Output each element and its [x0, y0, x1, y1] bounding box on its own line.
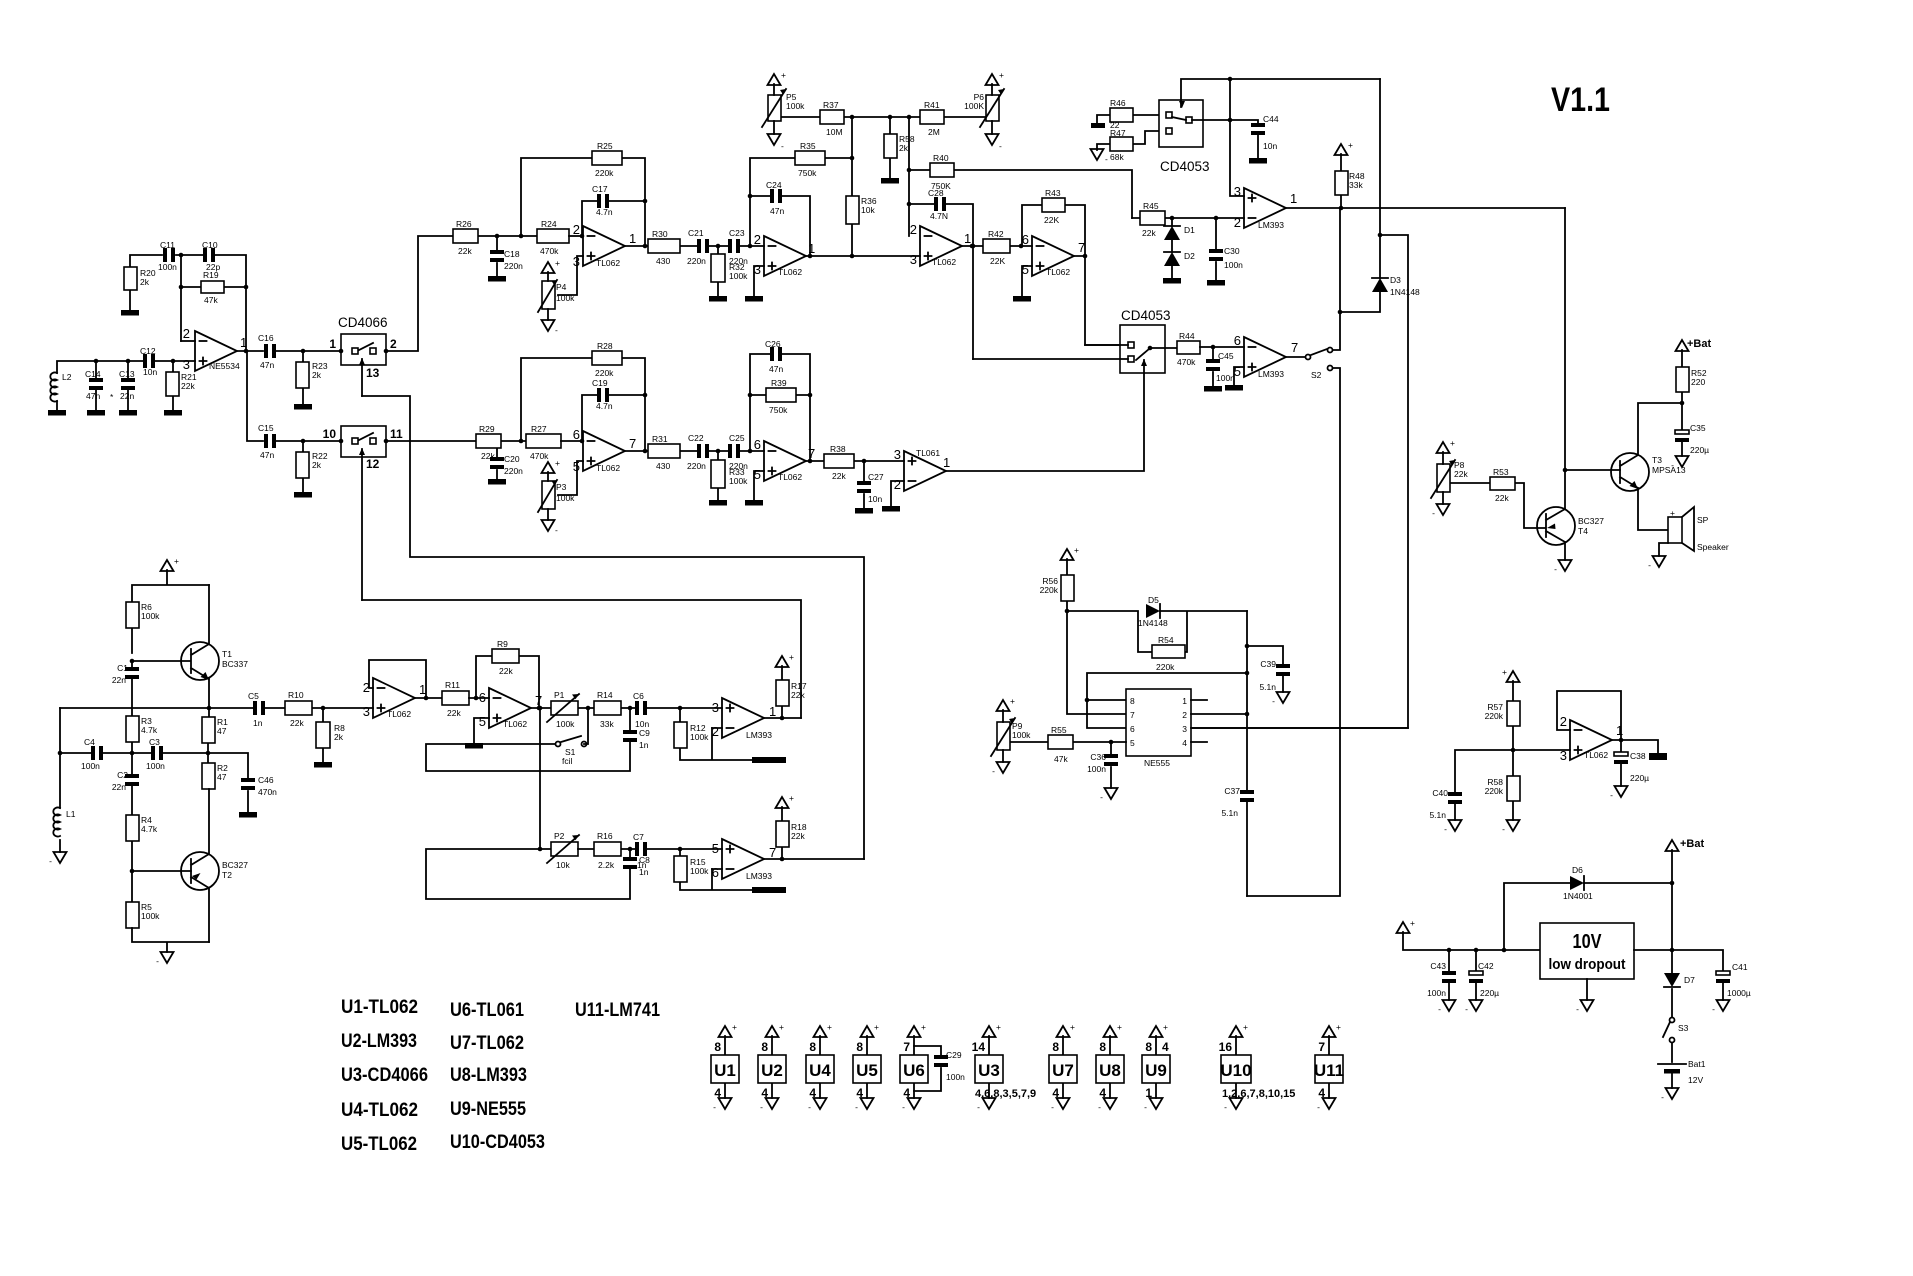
- svg-text:-: -: [977, 1102, 980, 1112]
- svg-text:BC327: BC327: [1578, 516, 1604, 526]
- svg-text:5: 5: [1130, 738, 1135, 748]
- svg-text:220k: 220k: [1485, 786, 1504, 796]
- svg-text:-: -: [1554, 564, 1557, 574]
- svg-text:C23: C23: [729, 228, 745, 238]
- svg-text:750k: 750k: [769, 405, 788, 415]
- svg-text:1N4148: 1N4148: [1138, 618, 1168, 628]
- svg-text:7: 7: [1078, 240, 1085, 255]
- svg-text:C27: C27: [868, 472, 884, 482]
- svg-text:2k: 2k: [312, 460, 322, 470]
- svg-text:C10: C10: [202, 240, 218, 250]
- svg-text:R29: R29: [479, 424, 495, 434]
- svg-text:6: 6: [573, 427, 580, 442]
- svg-text:Speaker: Speaker: [1697, 542, 1729, 552]
- svg-text:+Bat: +Bat: [1687, 338, 1711, 350]
- svg-text:2: 2: [390, 337, 397, 351]
- svg-text:1: 1: [240, 335, 247, 350]
- svg-text:C35: C35: [1690, 423, 1706, 433]
- svg-text:C11: C11: [160, 240, 175, 250]
- svg-text:14: 14: [972, 1040, 986, 1054]
- svg-text:100k: 100k: [1012, 730, 1031, 740]
- svg-text:CD4053: CD4053: [1160, 159, 1210, 174]
- svg-text:8: 8: [856, 1040, 863, 1054]
- svg-text:R37: R37: [823, 100, 839, 110]
- svg-text:R41: R41: [924, 100, 940, 110]
- svg-text:C4: C4: [84, 737, 95, 747]
- svg-text:C5: C5: [248, 691, 259, 701]
- svg-text:100k: 100k: [786, 101, 805, 111]
- svg-text:-: -: [555, 325, 558, 335]
- svg-text:47n: 47n: [260, 450, 274, 460]
- svg-text:220: 220: [1691, 377, 1705, 387]
- svg-text:+: +: [827, 1022, 832, 1032]
- svg-text:CD4066: CD4066: [338, 315, 388, 330]
- svg-text:7: 7: [629, 436, 636, 451]
- svg-text:100k: 100k: [729, 476, 748, 486]
- svg-text:+: +: [1336, 1022, 1341, 1032]
- svg-text:6: 6: [1022, 232, 1029, 247]
- svg-text:2.2k: 2.2k: [598, 860, 615, 870]
- svg-text:+: +: [874, 1022, 879, 1032]
- svg-text:220µ: 220µ: [1630, 773, 1649, 783]
- svg-text:U7: U7: [1052, 1061, 1074, 1080]
- svg-text:+: +: [996, 1022, 1001, 1032]
- svg-text:D2: D2: [1184, 251, 1195, 261]
- svg-text:2k: 2k: [312, 370, 322, 380]
- svg-text:1: 1: [808, 241, 815, 256]
- svg-text:+: +: [999, 70, 1004, 80]
- svg-text:4: 4: [1099, 1086, 1106, 1100]
- svg-text:Bat1: Bat1: [1688, 1059, 1706, 1069]
- svg-text:LM393: LM393: [746, 730, 772, 740]
- svg-text:+: +: [555, 258, 560, 268]
- svg-text:2: 2: [1560, 714, 1567, 729]
- svg-text:2: 2: [910, 222, 917, 237]
- svg-text:3: 3: [894, 447, 901, 462]
- svg-text:TL062: TL062: [387, 709, 411, 719]
- svg-text:4: 4: [714, 1086, 721, 1100]
- svg-text:100n: 100n: [946, 1072, 965, 1082]
- svg-text:220k: 220k: [595, 168, 614, 178]
- svg-text:220k: 220k: [595, 368, 614, 378]
- svg-text:TL062: TL062: [932, 257, 956, 267]
- svg-text:C42: C42: [1478, 961, 1494, 971]
- svg-text:BC337: BC337: [222, 659, 248, 669]
- svg-text:R19: R19: [203, 270, 219, 280]
- svg-text:3: 3: [712, 700, 719, 715]
- svg-text:C14: C14: [85, 369, 101, 379]
- svg-text:2k: 2k: [140, 277, 150, 287]
- svg-text:U3: U3: [978, 1061, 1000, 1080]
- svg-text:-: -: [1648, 560, 1651, 570]
- svg-text:R30: R30: [652, 229, 668, 239]
- svg-text:33k: 33k: [600, 719, 614, 729]
- svg-text:C45: C45: [1218, 351, 1234, 361]
- svg-text:22k: 22k: [1495, 493, 1509, 503]
- svg-text:7: 7: [808, 446, 815, 461]
- svg-text:5: 5: [479, 714, 486, 729]
- svg-text:U1: U1: [714, 1061, 736, 1080]
- svg-text:U1-TL062: U1-TL062: [341, 997, 418, 1018]
- svg-text:47: 47: [217, 772, 227, 782]
- svg-text:430: 430: [656, 256, 670, 266]
- svg-text:+: +: [1410, 918, 1415, 928]
- svg-text:+: +: [781, 70, 786, 80]
- svg-text:4: 4: [1182, 738, 1187, 748]
- svg-text:4: 4: [1162, 1040, 1169, 1054]
- svg-text:C39: C39: [1260, 659, 1276, 669]
- svg-text:100n: 100n: [1427, 988, 1446, 998]
- svg-text:low dropout: low dropout: [1549, 956, 1626, 973]
- svg-text:LM393: LM393: [746, 871, 772, 881]
- svg-text:C43: C43: [1430, 961, 1446, 971]
- svg-text:R53: R53: [1493, 467, 1509, 477]
- svg-text:U2-LM393: U2-LM393: [341, 1031, 417, 1052]
- svg-text:7: 7: [1318, 1040, 1325, 1054]
- svg-text:-: -: [1098, 1102, 1101, 1112]
- svg-text:68k: 68k: [1110, 152, 1124, 162]
- svg-text:C29: C29: [946, 1050, 962, 1060]
- svg-text:D6: D6: [1572, 865, 1583, 875]
- svg-text:U10: U10: [1220, 1061, 1251, 1080]
- svg-text:1n: 1n: [637, 860, 647, 870]
- svg-text:+Bat: +Bat: [1680, 838, 1704, 850]
- svg-text:-: -: [1438, 1004, 1441, 1014]
- svg-text:2: 2: [183, 326, 190, 341]
- svg-text:8: 8: [1099, 1040, 1106, 1054]
- svg-text:470k: 470k: [1177, 357, 1196, 367]
- svg-text:C1: C1: [117, 663, 128, 673]
- svg-text:+: +: [789, 793, 794, 803]
- svg-text:C19: C19: [592, 378, 608, 388]
- svg-text:C21: C21: [688, 228, 704, 238]
- svg-text:R28: R28: [597, 341, 613, 351]
- svg-text:-: -: [1502, 824, 1505, 834]
- svg-text:-: -: [1432, 508, 1435, 518]
- svg-text:2: 2: [754, 232, 761, 247]
- svg-text:C6: C6: [633, 691, 644, 701]
- svg-text:3: 3: [1234, 184, 1241, 199]
- svg-text:U2: U2: [761, 1061, 783, 1080]
- svg-text:1: 1: [1616, 723, 1623, 738]
- svg-text:100k: 100k: [556, 719, 575, 729]
- svg-text:3: 3: [363, 704, 370, 719]
- svg-text:LM393: LM393: [1258, 369, 1284, 379]
- svg-text:-: -: [1610, 790, 1613, 800]
- svg-text:10M: 10M: [826, 127, 843, 137]
- svg-text:R55: R55: [1051, 725, 1067, 735]
- svg-text:6: 6: [1130, 724, 1135, 734]
- svg-text:100K: 100K: [964, 101, 984, 111]
- svg-text:22k: 22k: [290, 718, 304, 728]
- svg-text:470k: 470k: [530, 451, 549, 461]
- svg-text:+: +: [1010, 696, 1015, 706]
- svg-text:D3: D3: [1390, 275, 1401, 285]
- svg-text:C9: C9: [639, 728, 650, 738]
- svg-text:22k: 22k: [1142, 228, 1156, 238]
- svg-text:8: 8: [714, 1040, 721, 1054]
- svg-text:NE555: NE555: [1144, 758, 1170, 768]
- svg-text:1: 1: [943, 455, 950, 470]
- svg-text:R38: R38: [830, 444, 846, 454]
- svg-text:C12: C12: [140, 346, 156, 356]
- svg-text:C44: C44: [1263, 114, 1279, 124]
- svg-text:TL061: TL061: [916, 448, 940, 458]
- svg-text:T3: T3: [1652, 455, 1662, 465]
- svg-text:12: 12: [366, 457, 380, 471]
- svg-text:R11: R11: [445, 680, 460, 690]
- svg-text:4: 4: [1318, 1086, 1325, 1100]
- svg-text:750k: 750k: [798, 168, 817, 178]
- svg-text:22K: 22K: [990, 256, 1005, 266]
- svg-text:-: -: [999, 141, 1002, 151]
- svg-text:R45: R45: [1143, 201, 1159, 211]
- svg-text:R16: R16: [597, 831, 613, 841]
- svg-text:4.7N: 4.7N: [930, 211, 948, 221]
- svg-text:C40: C40: [1432, 788, 1448, 798]
- svg-text:R31: R31: [652, 434, 668, 444]
- svg-text:10V: 10V: [1573, 931, 1603, 953]
- svg-text:13: 13: [366, 366, 380, 380]
- svg-text:R42: R42: [988, 229, 1004, 239]
- svg-text:C22: C22: [688, 433, 704, 443]
- svg-text:+: +: [1117, 1022, 1122, 1032]
- svg-text:-: -: [1051, 1102, 1054, 1112]
- svg-text:2: 2: [573, 222, 580, 237]
- svg-text:1: 1: [329, 337, 336, 351]
- svg-text:100n: 100n: [1224, 260, 1243, 270]
- svg-text:220n: 220n: [687, 256, 706, 266]
- svg-text:-: -: [1224, 1102, 1227, 1112]
- svg-text:R10: R10: [288, 690, 304, 700]
- svg-text:U9: U9: [1145, 1061, 1167, 1080]
- svg-text:1: 1: [769, 704, 776, 719]
- svg-text:100n: 100n: [158, 262, 177, 272]
- svg-text:7: 7: [1291, 340, 1298, 355]
- svg-text:100k: 100k: [690, 732, 709, 742]
- svg-text:1: 1: [1182, 696, 1187, 706]
- svg-text:1N4001: 1N4001: [1563, 891, 1593, 901]
- svg-text:TL062: TL062: [778, 267, 802, 277]
- svg-text:6: 6: [754, 437, 761, 452]
- svg-text:+: +: [921, 1022, 926, 1032]
- svg-text:220n: 220n: [504, 261, 523, 271]
- svg-text:5.1n: 5.1n: [1259, 682, 1276, 692]
- svg-text:D7: D7: [1684, 975, 1695, 985]
- svg-text:1: 1: [629, 231, 636, 246]
- svg-text:U3-CD4066: U3-CD4066: [341, 1065, 428, 1086]
- svg-text:12V: 12V: [1688, 1075, 1703, 1085]
- svg-text:R39: R39: [771, 378, 787, 388]
- svg-text:4: 4: [856, 1086, 863, 1100]
- svg-text:L1: L1: [66, 809, 76, 819]
- svg-text:V1.1: V1.1: [1551, 81, 1610, 119]
- svg-text:-: -: [760, 1102, 763, 1112]
- svg-text:-: -: [1712, 1004, 1715, 1014]
- svg-text:470n: 470n: [258, 787, 277, 797]
- svg-text:+: +: [732, 1022, 737, 1032]
- svg-text:C38: C38: [1630, 751, 1646, 761]
- svg-text:+: +: [789, 652, 794, 662]
- svg-text:U8-LM393: U8-LM393: [450, 1065, 527, 1086]
- svg-text:22k: 22k: [832, 471, 846, 481]
- svg-text:C17: C17: [592, 184, 608, 194]
- svg-text:1: 1: [1145, 1086, 1152, 1100]
- svg-text:47n: 47n: [260, 360, 274, 370]
- svg-text:22k: 22k: [181, 381, 195, 391]
- svg-text:47k: 47k: [204, 295, 218, 305]
- svg-text:100n: 100n: [81, 761, 100, 771]
- svg-text:470k: 470k: [540, 246, 559, 256]
- svg-text:4.7n: 4.7n: [596, 207, 613, 217]
- svg-text:R40: R40: [933, 153, 949, 163]
- svg-text:3: 3: [183, 357, 190, 372]
- svg-text:100k: 100k: [141, 911, 160, 921]
- svg-text:47: 47: [217, 726, 227, 736]
- svg-text:220k: 220k: [1485, 711, 1504, 721]
- svg-text:2k: 2k: [899, 143, 909, 153]
- svg-text:C16: C16: [258, 333, 274, 343]
- svg-text:4.7n: 4.7n: [596, 401, 613, 411]
- svg-text:220k: 220k: [1156, 662, 1175, 672]
- svg-text:-: -: [1144, 1102, 1147, 1112]
- svg-text:TL062: TL062: [1046, 267, 1070, 277]
- svg-text:R9: R9: [497, 639, 508, 649]
- svg-text:1n: 1n: [253, 718, 263, 728]
- svg-text:3: 3: [1560, 748, 1567, 763]
- svg-text:TL062: TL062: [1584, 750, 1608, 760]
- svg-text:+: +: [1074, 545, 1079, 555]
- svg-text:4: 4: [761, 1086, 768, 1100]
- svg-text:3: 3: [1182, 724, 1187, 734]
- svg-text:4.7k: 4.7k: [141, 824, 158, 834]
- svg-text:NE5534: NE5534: [209, 361, 240, 371]
- svg-text:-: -: [1317, 1102, 1320, 1112]
- svg-text:100n: 100n: [1087, 764, 1106, 774]
- svg-text:D5: D5: [1148, 595, 1159, 605]
- svg-text:C2: C2: [117, 770, 128, 780]
- svg-text:100k: 100k: [141, 611, 160, 621]
- svg-text:22n: 22n: [120, 391, 134, 401]
- svg-text:U10-CD4053: U10-CD4053: [450, 1132, 545, 1153]
- svg-text:5.1n: 5.1n: [1429, 810, 1446, 820]
- svg-text:-: -: [1105, 154, 1108, 164]
- svg-text:LM393: LM393: [1258, 220, 1284, 230]
- svg-text:R25: R25: [597, 141, 613, 151]
- svg-text:8: 8: [761, 1040, 768, 1054]
- svg-text:22K: 22K: [1044, 215, 1059, 225]
- svg-text:-: -: [555, 525, 558, 535]
- svg-text:220n: 220n: [687, 461, 706, 471]
- svg-text:-: -: [808, 1102, 811, 1112]
- svg-text:C15: C15: [258, 423, 274, 433]
- svg-text:R54: R54: [1158, 635, 1174, 645]
- svg-text:U4-TL062: U4-TL062: [341, 1100, 418, 1121]
- svg-text:fcil: fcil: [562, 756, 573, 766]
- svg-text:1: 1: [1290, 191, 1297, 206]
- svg-text:-: -: [1444, 824, 1447, 834]
- svg-text:33k: 33k: [1349, 180, 1363, 190]
- svg-text:22k: 22k: [791, 690, 805, 700]
- svg-text:R46: R46: [1110, 98, 1126, 108]
- svg-text:10n: 10n: [143, 367, 157, 377]
- svg-text:R24: R24: [541, 219, 557, 229]
- svg-text:+: +: [1348, 140, 1353, 150]
- svg-text:-: -: [49, 856, 52, 866]
- svg-text:220µ: 220µ: [1480, 988, 1499, 998]
- svg-text:-: -: [1576, 1004, 1579, 1014]
- svg-text:2k: 2k: [334, 732, 344, 742]
- svg-text:100k: 100k: [556, 493, 575, 503]
- svg-text:U6-TL061: U6-TL061: [450, 1000, 524, 1021]
- svg-text:22n: 22n: [112, 782, 126, 792]
- svg-text:SP: SP: [1697, 515, 1709, 525]
- svg-text:5.1n: 5.1n: [1221, 808, 1238, 818]
- svg-text:22k: 22k: [1454, 469, 1468, 479]
- svg-text:100n: 100n: [146, 761, 165, 771]
- svg-text:C24: C24: [766, 180, 782, 190]
- svg-text:+: +: [779, 1022, 784, 1032]
- svg-text:47n: 47n: [769, 364, 783, 374]
- svg-text:4: 4: [1052, 1086, 1059, 1100]
- svg-text:22k: 22k: [458, 246, 472, 256]
- svg-text:10n: 10n: [868, 494, 882, 504]
- svg-text:T1: T1: [222, 649, 232, 659]
- svg-text:4: 4: [809, 1086, 816, 1100]
- svg-text:-: -: [781, 141, 784, 151]
- svg-text:R44: R44: [1179, 331, 1195, 341]
- svg-text:+: +: [1450, 438, 1455, 448]
- svg-text:U4: U4: [809, 1061, 831, 1080]
- svg-text:-: -: [992, 766, 995, 776]
- svg-text:220n: 220n: [729, 256, 748, 266]
- svg-text:+: +: [1163, 1022, 1168, 1032]
- svg-text:T4: T4: [1578, 526, 1588, 536]
- svg-text:22k: 22k: [499, 666, 513, 676]
- svg-text:R43: R43: [1045, 188, 1061, 198]
- svg-text:7: 7: [769, 845, 776, 860]
- svg-text:22k: 22k: [481, 451, 495, 461]
- svg-text:2: 2: [712, 724, 719, 739]
- svg-text:+: +: [174, 556, 179, 566]
- svg-text:TL062: TL062: [596, 463, 620, 473]
- svg-text:22k: 22k: [447, 708, 461, 718]
- svg-text:+: +: [1070, 1022, 1075, 1032]
- svg-text:220n: 220n: [729, 461, 748, 471]
- svg-text:10n: 10n: [1263, 141, 1277, 151]
- svg-text:C28: C28: [928, 188, 944, 198]
- svg-text:6: 6: [1234, 333, 1241, 348]
- svg-text:C18: C18: [504, 249, 520, 259]
- svg-text:1000µ: 1000µ: [1727, 988, 1751, 998]
- svg-text:100k: 100k: [690, 866, 709, 876]
- svg-text:5: 5: [712, 841, 719, 856]
- svg-text:R26: R26: [456, 219, 472, 229]
- svg-text:U11-LM741: U11-LM741: [575, 1000, 660, 1021]
- svg-text:C25: C25: [729, 433, 745, 443]
- svg-text:C30: C30: [1224, 246, 1240, 256]
- svg-text:D1: D1: [1184, 225, 1195, 235]
- svg-text:-: -: [156, 956, 159, 966]
- svg-text:1: 1: [964, 231, 971, 246]
- svg-text:8: 8: [1130, 696, 1135, 706]
- svg-text:6: 6: [712, 865, 719, 880]
- svg-text:-: -: [1661, 1092, 1664, 1102]
- svg-text:C37: C37: [1224, 786, 1240, 796]
- svg-text:10k: 10k: [861, 205, 875, 215]
- svg-text:U9-NE555: U9-NE555: [450, 1099, 526, 1120]
- svg-text:100k: 100k: [729, 271, 748, 281]
